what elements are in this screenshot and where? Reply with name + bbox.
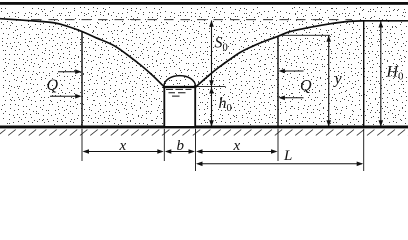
svg-text:x: x: [233, 138, 241, 154]
svg-text:Q: Q: [47, 77, 59, 94]
right Q lower arrow: [280, 97, 304, 99]
water symbol dashes in trench: [166, 89, 192, 96]
extension line below x=82: [81, 129, 83, 161]
base hatching: [0, 130, 408, 136]
L dimension line: [198, 163, 363, 165]
trench wall left: [163, 87, 165, 127]
extension line below x=278: [277, 129, 279, 161]
drawdown curve right + undisturbed water line: [196, 21, 408, 87]
drawdown curve left: [0, 19, 164, 87]
soil stipple dots: [1, 8, 407, 125]
svg-text:b: b: [177, 138, 185, 154]
h0 dimension line: [211, 87, 213, 127]
right Q upper arrow: [280, 70, 304, 72]
b dimension line: [166, 151, 194, 153]
extension line below trench right wall: [195, 129, 197, 171]
right Q section line: [277, 37, 279, 128]
left Q lower arrow: [50, 95, 80, 97]
impermeable base line: [0, 126, 408, 129]
soil dome above trench: [164, 76, 195, 86]
x dimension line (right): [198, 151, 277, 153]
extension line below trench left wall: [163, 129, 165, 161]
svg-text:Q: Q: [300, 78, 312, 95]
left Q upper arrow: [58, 71, 80, 73]
trench interior (white): [165, 88, 195, 126]
trench water surface line: [163, 86, 197, 88]
svg-text:L: L: [283, 148, 292, 164]
left boundary section line: [81, 32, 83, 127]
water table dashed line: [32, 19, 352, 21]
S0 dimension line: [211, 21, 213, 87]
y dimension line: [328, 36, 330, 127]
svg-text:x: x: [119, 138, 127, 154]
H0 dimension line: [380, 21, 382, 126]
svg-text:y: y: [333, 71, 343, 88]
trench wall right: [194, 87, 196, 127]
tick at trench water level (right): [196, 86, 226, 88]
ground surface line (top): [0, 2, 408, 5]
right boundary section line (at L): [363, 21, 365, 127]
y dimension tick: [279, 34, 330, 36]
extension line below x=363.7: [363, 129, 365, 171]
x dimension line (left): [84, 151, 162, 153]
